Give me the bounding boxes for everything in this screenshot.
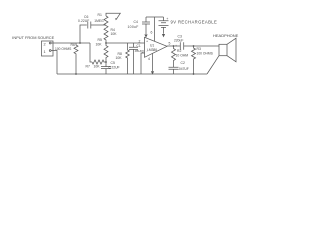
- resistor R3 100 OHMS: [192, 46, 196, 74]
- capacitor C1 (to ground): [129, 43, 138, 74]
- svg-text:R1: R1: [98, 13, 102, 17]
- svg-text:2: 2: [44, 42, 46, 46]
- headphone speaker: [219, 44, 227, 55]
- wire jog down to R7: [90, 43, 92, 62]
- capacitor C6 .22UF: [88, 22, 91, 29]
- svg-text:C5: C5: [111, 61, 115, 65]
- rail junction dot: [75, 73, 77, 75]
- svg-text:10K: 10K: [94, 65, 101, 69]
- svg-text:0.22UF: 0.22UF: [109, 66, 120, 70]
- capacitor C5 0.22UF: [101, 62, 111, 74]
- capacitor C2 .047UF: [169, 67, 179, 74]
- ground rail: [57, 73, 207, 75]
- resistor R5 10K (shunt): [104, 43, 108, 62]
- svg-text:3: 3: [142, 50, 144, 54]
- svg-text:.047UF: .047UF: [178, 67, 189, 71]
- svg-text:HEADPHONE: HEADPHONE: [213, 33, 239, 38]
- svg-text:INPUT FROM SOURCE: INPUT FROM SOURCE: [12, 35, 54, 40]
- wire node B to op-amp pin 2: [106, 42, 145, 44]
- svg-text:0.22UF: 0.22UF: [78, 19, 89, 23]
- svg-text:C1: C1: [137, 44, 141, 48]
- svg-text:R2: R2: [177, 49, 181, 53]
- svg-text:+: +: [166, 17, 168, 21]
- resistor R4 10K: [104, 26, 108, 43]
- node A junction dot: [79, 42, 81, 44]
- wire node A up to C6: [80, 25, 87, 43]
- svg-text:9V RECHARGEABLE: 9V RECHARGEABLE: [171, 19, 218, 24]
- svg-text:100 OHMS: 100 OHMS: [55, 47, 72, 51]
- capacitor C3 220uF: [180, 42, 183, 50]
- svg-text:2: 2: [139, 40, 141, 44]
- svg-text:1MEG: 1MEG: [94, 19, 104, 23]
- svg-text:+: +: [146, 40, 148, 44]
- svg-text:100uF: 100uF: [128, 25, 139, 29]
- svg-text:10K: 10K: [116, 56, 123, 60]
- svg-text:C2: C2: [181, 61, 185, 65]
- svg-text:LM386: LM386: [147, 48, 157, 52]
- svg-text:10K: 10K: [96, 43, 103, 47]
- svg-text:U1: U1: [150, 44, 154, 48]
- svg-text:1: 1: [44, 50, 46, 54]
- pin 3 ground wire: [141, 53, 145, 74]
- svg-text:100 OHMS: 100 OHMS: [197, 52, 214, 56]
- potentiometer R1 wiper arrow: [106, 13, 120, 18]
- svg-text:10K: 10K: [111, 32, 118, 36]
- op-amp U1 LM386: [145, 37, 168, 57]
- output wire pin 5: [167, 45, 180, 47]
- node E junction dot: [193, 45, 195, 47]
- svg-text:R5: R5: [98, 38, 102, 42]
- pin 6 wire: [154, 17, 156, 41]
- connector J1 box: [42, 41, 54, 56]
- svg-text:10 OHM: 10 OHM: [176, 53, 189, 57]
- svg-text:R3: R3: [197, 47, 201, 51]
- capacitor C4 100uF: [142, 17, 150, 34]
- svg-text:6: 6: [151, 31, 153, 35]
- node B junction dot: [105, 42, 107, 44]
- svg-text:+: +: [175, 44, 177, 48]
- svg-text:C4: C4: [134, 20, 138, 24]
- wire pin1 down to ground rail: [51, 51, 57, 75]
- battery B1 9V: [159, 17, 169, 34]
- V+ rail: [146, 16, 164, 18]
- resistor R7 10K (horizontal): [92, 60, 106, 64]
- resistor R1 body: [104, 16, 108, 26]
- svg-text:4: 4: [148, 57, 150, 61]
- resistor R8 (shunt leg): [126, 43, 130, 74]
- ground arrow for C4: [144, 34, 147, 37]
- svg-text:R7: R7: [86, 65, 90, 69]
- wire pin2 to node A: [51, 42, 90, 44]
- node D junction dot: [173, 45, 175, 47]
- resistor R2 10 OHM: [172, 46, 176, 67]
- ground arrow for battery: [162, 34, 165, 37]
- rail junction dot: [193, 73, 195, 75]
- svg-text:220uF: 220uF: [174, 39, 183, 43]
- svg-text:5: 5: [169, 42, 171, 46]
- node C junction dot: [105, 61, 107, 63]
- pin 4 wire to ground: [152, 53, 154, 71]
- resistor R6 100 OHMS (input shunt): [74, 43, 78, 74]
- wire ground rail to speaker: [207, 56, 219, 74]
